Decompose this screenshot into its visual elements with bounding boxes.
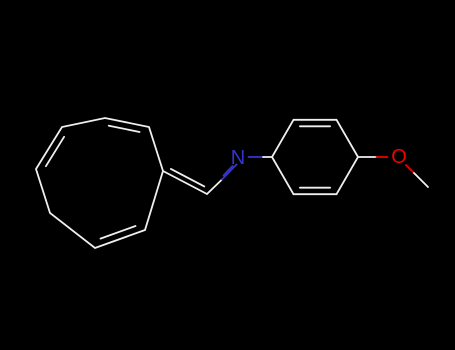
cyclooctatriene ring left (octagon) — [36, 118, 163, 248]
bond O to methyl (white half) — [414, 173, 428, 187]
single bond C2-C1 (white part, collinear with C1=N) — [207, 180, 222, 195]
bond ring to O (red half) — [377, 156, 388, 158]
aromatic inner bond bottom — [300, 187, 330, 189]
bond ring to O (white half) — [358, 156, 377, 158]
svg-text:O: O — [391, 146, 407, 168]
imine double bond C1=N (blue) — [222, 165, 237, 180]
bond N to ring (blue half) — [249, 156, 264, 158]
ring outline — [36, 118, 163, 248]
ring double bond inner line left-upper — [46, 137, 64, 166]
aromatic inner bond top — [300, 125, 330, 127]
ring double bond inner line bottom — [101, 226, 136, 239]
benzene ring right (anisyl) — [272, 120, 358, 194]
svg-text:N: N — [231, 147, 245, 169]
ring double bond inner line top — [109, 126, 140, 132]
bond O to methyl (red half) — [406, 165, 414, 173]
bond N to ring (white half) — [263, 156, 272, 158]
exocyclic double bond C=C — [163, 169, 207, 194]
